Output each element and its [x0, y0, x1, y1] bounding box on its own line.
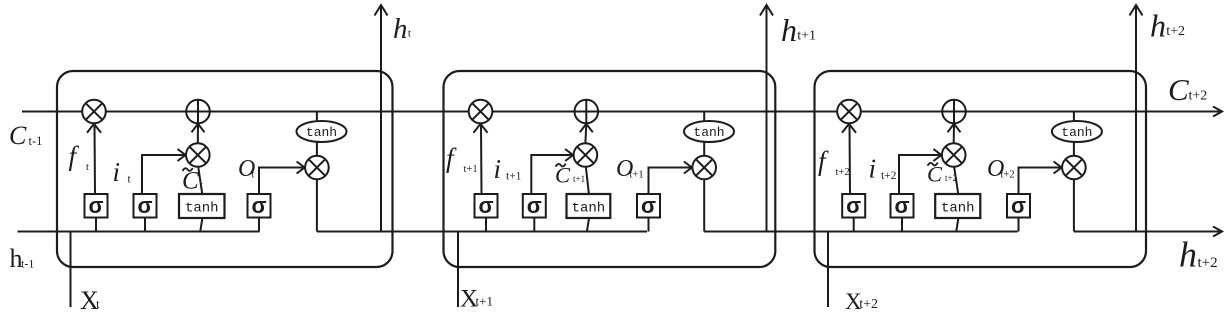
svg-text:σ: σ — [478, 193, 493, 218]
svg-text:t: t — [96, 297, 100, 311]
svg-text:t-1: t-1 — [29, 134, 43, 148]
svg-text:σ: σ — [846, 193, 861, 218]
svg-text:σ: σ — [1011, 193, 1026, 218]
svg-text:t+1: t+1 — [630, 170, 644, 181]
svg-text:t+2: t+2 — [836, 167, 850, 178]
svg-text:t: t — [408, 28, 411, 40]
svg-text:t+1: t+1 — [797, 29, 816, 44]
svg-text:t+2: t+2 — [1001, 170, 1015, 181]
svg-text:t+1: t+1 — [506, 171, 522, 183]
svg-text:σ: σ — [88, 193, 103, 218]
svg-text:C: C — [9, 121, 27, 150]
svg-text:t-1: t-1 — [21, 257, 34, 271]
svg-text:tanh: tanh — [941, 201, 975, 217]
svg-text:tanh: tanh — [572, 201, 606, 217]
svg-text:h: h — [1150, 8, 1166, 44]
svg-text:σ: σ — [251, 193, 266, 218]
svg-text:h: h — [1179, 235, 1197, 275]
svg-text:t: t — [200, 180, 203, 191]
svg-text:tanh: tanh — [693, 125, 724, 140]
svg-text:tanh: tanh — [185, 201, 219, 217]
svg-text:t+1: t+1 — [464, 164, 478, 175]
svg-text:i: i — [494, 154, 502, 184]
svg-text:t: t — [86, 162, 89, 173]
svg-text:σ: σ — [641, 193, 656, 218]
svg-text:i: i — [113, 157, 121, 187]
svg-text:σ: σ — [137, 193, 152, 218]
svg-text:tanh: tanh — [306, 125, 337, 140]
svg-text:t+2: t+2 — [1189, 89, 1208, 104]
svg-text:t+2: t+2 — [1166, 24, 1185, 39]
svg-text:C: C — [1168, 72, 1189, 107]
svg-text:t+2: t+2 — [945, 173, 957, 183]
svg-text:t+1: t+1 — [573, 174, 585, 184]
svg-text:t+2: t+2 — [1198, 255, 1218, 271]
svg-text:i: i — [869, 154, 877, 184]
svg-text:tanh: tanh — [1061, 125, 1092, 140]
svg-text:σ: σ — [894, 193, 909, 218]
svg-text:t: t — [252, 170, 255, 181]
svg-text:h: h — [781, 12, 797, 48]
svg-text:t+1: t+1 — [476, 294, 493, 309]
svg-text:h: h — [393, 13, 408, 45]
svg-text:t+2: t+2 — [881, 170, 897, 182]
svg-text:t+2: t+2 — [859, 297, 878, 312]
svg-text:σ: σ — [527, 193, 542, 218]
